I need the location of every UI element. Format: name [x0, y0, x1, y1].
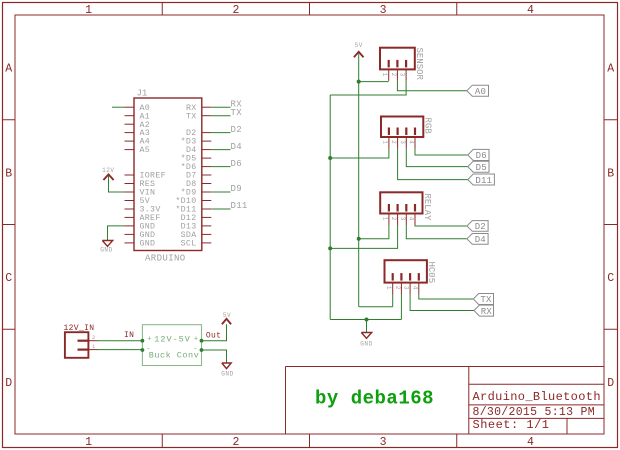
svg-text:Sheet: 1/1: Sheet: 1/1: [473, 418, 550, 432]
ground symbol buck: [222, 363, 231, 369]
svg-text:3: 3: [399, 217, 406, 221]
svg-text:4: 4: [527, 436, 534, 449]
wire RGB pin2 to D11: [398, 149, 468, 180]
wire net RX: [211, 106, 230, 108]
wire RGB pin4 to D6: [415, 149, 468, 156]
svg-text:1: 1: [85, 4, 92, 17]
wire 5V rail to HC05 pin1: [359, 306, 393, 308]
wire net D9: [211, 191, 230, 193]
svg-text:GND: GND: [360, 341, 373, 348]
wire net TX: [211, 115, 230, 117]
svg-text:D6: D6: [476, 151, 487, 161]
svg-text:HC05: HC05: [426, 262, 436, 284]
net flag A0: [467, 85, 489, 97]
connector RELAY body: [380, 192, 422, 213]
supply 5V top arrow: [354, 52, 364, 57]
net flag D11: [468, 174, 495, 186]
svg-text:4: 4: [411, 286, 418, 290]
svg-text:RGB: RGB: [423, 118, 433, 135]
svg-text:3: 3: [399, 140, 406, 144]
J1 left pins: [125, 107, 135, 243]
junction ground RGB: [328, 156, 332, 160]
wire net D2: [211, 132, 230, 134]
HC05 pin numbers: [385, 286, 418, 290]
wire GND pin to ground: [108, 226, 125, 241]
svg-text:3: 3: [380, 4, 387, 17]
svg-text:4: 4: [408, 140, 415, 144]
svg-text:1: 1: [381, 73, 388, 77]
svg-text:*D9: *D9: [181, 188, 197, 198]
svg-text:D6: D6: [231, 159, 242, 169]
wire 12V to VIN: [109, 176, 125, 193]
ground symbol near J1: [102, 241, 112, 247]
svg-text:3: 3: [399, 73, 406, 77]
wire 5V to SENSOR pin1: [359, 81, 389, 83]
svg-text:2: 2: [232, 4, 239, 17]
svg-text:C: C: [5, 272, 12, 285]
svg-text:RELAY: RELAY: [422, 194, 432, 222]
svg-text:A: A: [607, 63, 614, 76]
12V_IN pins: [88, 341, 97, 350]
J1 right pins: [202, 107, 212, 243]
svg-text:TX: TX: [480, 295, 492, 305]
svg-text:D: D: [5, 377, 12, 390]
svg-text:D2: D2: [231, 125, 242, 135]
svg-text:1: 1: [385, 286, 392, 290]
svg-text:5V: 5V: [355, 42, 363, 49]
junction ground bottom: [365, 318, 369, 322]
svg-text:2: 2: [92, 334, 95, 341]
supply 12V arrow: [103, 174, 113, 180]
net flag D5: [468, 161, 489, 173]
wire RELAY pin1 to 5V rail: [359, 225, 389, 239]
wire SENSOR pin3 to ground rail: [330, 81, 406, 95]
wire RELAY pin3 to D4: [406, 225, 467, 239]
svg-text:D2: D2: [475, 222, 486, 232]
svg-text:*D5: *D5: [181, 154, 197, 164]
connector HC05 body: [385, 260, 427, 282]
wire net D6: [211, 166, 230, 168]
net flag D2: [467, 221, 488, 233]
svg-text:GND: GND: [221, 371, 234, 378]
buck minus marks: [146, 345, 197, 353]
svg-text:A5: A5: [140, 146, 151, 155]
J1 right pin names: [175, 104, 196, 249]
buck converter body: [142, 325, 201, 366]
svg-text:B: B: [607, 167, 614, 180]
net flag D6: [468, 149, 489, 161]
svg-text:B: B: [5, 167, 12, 180]
wire net D4: [211, 149, 230, 151]
12V_IN pin bars: [78, 341, 90, 350]
wire stub at pin A0: [112, 106, 125, 108]
svg-text:SCL: SCL: [181, 240, 197, 249]
svg-text:+: +: [194, 335, 198, 343]
svg-text:12V: 12V: [102, 167, 114, 174]
wire 12V_IN pin2 to buck IN: [98, 340, 143, 342]
wire net D11: [211, 208, 230, 210]
wire RGB pin3 to D5: [406, 149, 468, 167]
svg-text:Arduino_Bluetooth: Arduino_Bluetooth: [473, 390, 601, 404]
wire RELAY pin4 to D2: [415, 225, 467, 226]
svg-text:1: 1: [381, 217, 388, 221]
wire RELAY pin2 to ground rail: [330, 225, 397, 248]
svg-text:D5: D5: [476, 163, 487, 173]
wire buck out to 5V: [202, 324, 227, 341]
svg-text:Out: Out: [206, 331, 221, 340]
wire HC05 pin1 to 5V rail: [392, 294, 394, 307]
svg-text:1: 1: [85, 436, 92, 449]
svg-text:D4: D4: [475, 235, 486, 245]
svg-text:by deba168: by deba168: [315, 388, 434, 410]
svg-text:Buck Conv: Buck Conv: [149, 351, 199, 361]
svg-text:4: 4: [408, 217, 415, 221]
svg-text:12V-5V: 12V-5V: [154, 334, 191, 344]
svg-text:C: C: [607, 272, 614, 285]
J1 left pin names: [140, 104, 166, 249]
wire HC05 pin3 to RX: [410, 294, 474, 311]
svg-text:2: 2: [390, 140, 397, 144]
svg-text:TX: TX: [231, 108, 243, 118]
buck plus marks: [147, 335, 198, 343]
svg-text:ARDUINO: ARDUINO: [145, 253, 186, 263]
12V_IN pin numbers: [92, 334, 96, 350]
svg-text:2: 2: [394, 286, 401, 290]
supply 5V buck arrow: [222, 319, 231, 324]
svg-text:4: 4: [527, 4, 534, 17]
svg-text:A0: A0: [475, 87, 486, 97]
wire buck minus to ground: [202, 350, 227, 363]
svg-text:TX: TX: [186, 112, 197, 121]
svg-text:D11: D11: [231, 201, 248, 211]
svg-text:2: 2: [232, 436, 239, 449]
net flag RX: [474, 305, 494, 317]
svg-text:RX: RX: [481, 307, 493, 317]
svg-text:D: D: [607, 377, 614, 390]
RELAY pin numbers: [381, 217, 414, 221]
svg-text:D4: D4: [231, 142, 242, 152]
svg-text:2: 2: [390, 73, 397, 77]
ground symbol bottom right: [361, 333, 371, 339]
svg-text:IN: IN: [124, 331, 134, 340]
svg-text:SENSOR: SENSOR: [414, 48, 424, 81]
junction ground relay: [328, 246, 332, 250]
SENSOR pin numbers: [381, 73, 405, 77]
svg-text:5V: 5V: [223, 312, 231, 319]
svg-text:A: A: [5, 63, 12, 76]
svg-text:2: 2: [390, 217, 397, 221]
buck converter pin dots: [141, 339, 204, 352]
svg-text:3: 3: [403, 286, 410, 290]
title block frame: [286, 367, 605, 435]
svg-text:D11: D11: [475, 176, 492, 186]
connector RGB body: [381, 117, 423, 138]
wire junction to ground symbol: [366, 320, 368, 333]
svg-text:GND: GND: [140, 240, 156, 249]
connector SENSOR body: [380, 48, 415, 70]
connector J1 ARDUINO body: [134, 98, 202, 251]
svg-text:+: +: [147, 335, 151, 343]
net flag TX: [473, 294, 493, 306]
svg-text:GND: GND: [100, 247, 113, 254]
svg-text:*D3: *D3: [181, 137, 197, 147]
svg-text:1: 1: [381, 140, 388, 144]
connector 12V_IN body: [65, 332, 89, 358]
wire bottom ground bus: [330, 319, 401, 321]
net flag D4: [467, 234, 488, 246]
RGB pin numbers: [381, 140, 414, 144]
wire HC05 pin4 to TX: [419, 294, 474, 299]
svg-text:D9: D9: [231, 184, 242, 194]
wire HC05 pin2 to ground bus: [400, 294, 402, 320]
wire GND rail vertical: [329, 95, 331, 320]
junction 5V relay: [357, 237, 361, 241]
svg-text:3: 3: [380, 436, 387, 449]
svg-text:J1: J1: [137, 89, 148, 99]
junction 5V sensor: [357, 80, 361, 84]
wire SENSOR pin2 to A0: [397, 81, 467, 91]
wire RGB pin1 to ground rail: [330, 149, 389, 159]
wire 12V_IN pin1 to buck minus: [98, 349, 143, 351]
svg-text:*D10: *D10: [175, 196, 196, 206]
wire 5V rail vertical: [358, 53, 360, 307]
